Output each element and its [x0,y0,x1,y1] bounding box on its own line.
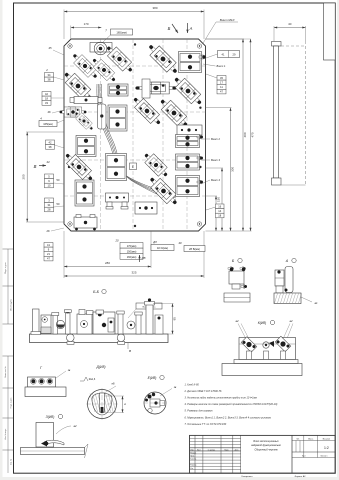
svg-text:200: 200 [21,174,25,179]
detail E circle [144,392,166,414]
svg-text:Масса: Масса [308,438,313,440]
3I8 clamp lever [44,440,64,445]
left margin strip cells [3,248,14,250]
K clamp left [241,337,257,353]
svg-text:Лист: Лист [197,449,201,451]
svg-text:300: 300 [231,167,235,172]
block i [108,105,127,131]
svg-text:32 D(мм): 32 D(мм) [157,246,168,250]
K body [239,338,296,360]
svg-text:Подп.: Подп. [224,449,229,451]
view G drawing [28,377,56,387]
svg-text:Разраб.: Разраб. [190,452,197,454]
cable bundle curves [97,84,176,194]
tall slotted part [98,104,107,129]
left dimension 200 [26,131,64,133]
section right end part [146,304,153,335]
vint2 unit [176,135,200,148]
bottom edge bolts [75,228,78,231]
K wide base [222,364,302,376]
bar ab [135,202,157,214]
clamp unit m diagonal [171,74,206,109]
svg-text:470: 470 [251,132,255,137]
detail D centerlines [86,403,118,405]
side view hidden line [305,46,307,185]
top dimension 380 [63,10,65,40]
svg-text:Масштаб: Масштаб [323,438,330,440]
svg-text:3. На места гайки надеть уплот: 3. На места гайки надеть уплотнения труб… [185,397,258,400]
svg-text:170: 170 [84,22,89,26]
E view flag [130,163,137,170]
svg-text:а2: а2 [289,319,293,323]
svg-text:Пров.: Пров. [190,455,195,457]
svg-text:1. Клей К-80: 1. Клей К-80 [185,384,200,387]
clamp unit d2 diagonal [89,55,118,84]
bottom extension lines [63,231,65,278]
block g [108,84,128,96]
svg-text:400: 400 [243,132,247,137]
main base plate outline [64,39,206,231]
svg-text:4. Размеры винтов по схеме раз: 4. Размеры винтов по схеме размерной при… [185,403,278,406]
right callout stack4 [217,76,226,81]
section right dim [168,333,174,335]
svg-text:85: 85 [173,317,177,321]
detail D dim n8 [104,386,116,393]
right dimension 150 [206,167,224,169]
svg-text:20: 20 [115,239,119,243]
clamp unit n diagonal [130,94,164,128]
section left upright [33,309,40,334]
svg-text:Утв.: Утв. [190,468,194,470]
K center pin [263,342,269,348]
svg-text:а1: а1 [314,301,318,305]
svg-text:28 Б(мм): 28 Б(мм) [189,247,200,251]
svg-text:165(мм): 165(мм) [43,122,53,126]
svg-text:45: 45 [49,46,52,50]
svg-text:Листов 1: Листов 1 [321,455,328,457]
section parts [41,315,51,334]
right dimension 470 [206,38,252,40]
svg-text:Блок экспозиционных: Блок экспозиционных [253,440,279,443]
clamp unit d4 diagonal [61,69,96,104]
detail E content [148,395,152,399]
detail D dim b [104,395,124,397]
G leader [56,371,66,378]
svg-text:б: б [123,403,127,405]
svg-text:Инв. № дубл.: Инв. № дубл. [10,299,13,311]
title block right section [292,440,335,442]
svg-text:40: 40 [288,22,292,26]
svg-text:Винт 2: Винт 2 [211,137,220,141]
I8 view arrow [139,255,141,262]
svg-text:Т.контр.: Т.контр. [190,459,197,461]
section post 2 [66,313,71,334]
section post 3 [118,313,123,334]
3I8 leader a2 [56,426,71,434]
stack s [75,180,94,206]
section mid cluster [77,314,92,334]
svg-text:Взам. инв. №: Взам. инв. № [4,366,7,377]
bottom dimension 280 [64,266,151,268]
clamp unit j diagonal [145,41,181,77]
small diagonal clamp e2 [73,110,96,133]
bar v [74,217,97,228]
svg-text:Спр. №: Спр. № [10,459,13,465]
detail D circle [88,390,117,419]
left stack b [42,92,51,97]
svg-text:Б-Б: Б-Б [93,290,100,294]
svg-text:5. Размеры для справок: 5. Размеры для справок [185,410,214,413]
svg-text:280: 280 [105,261,110,265]
svg-text:а2: а2 [235,319,239,323]
bottom left stack [44,243,53,248]
svg-text:44: 44 [47,160,50,164]
svg-text:Винт М10: Винт М10 [220,18,235,22]
top right corner table [324,3,336,60]
bench u with feet [106,193,129,202]
svg-text:Н.контр.: Н.контр. [190,465,197,467]
svg-text:Винт 3: Винт 3 [211,158,220,162]
section right cluster [93,312,115,334]
detail D slot [100,393,105,412]
svg-text:Винт 4: Винт 4 [211,178,220,182]
svg-text:Д(И8): Д(И8) [96,365,106,369]
svg-text:7. Остальные ТТ: по ОСТ4.070.0: 7. Остальные ТТ: по ОСТ4.070.030 [185,423,227,426]
svg-text:160(мм): 160(мм) [127,255,137,259]
vint4 unit [176,176,200,197]
K base strip [234,360,298,364]
svg-text:26: 26 [46,229,50,233]
clamp unit d3 diagonal [103,43,136,76]
title block name cell [291,435,293,473]
clamp unit left edge [60,107,87,117]
3I8 base [21,448,85,455]
svg-text:В: В [34,164,37,169]
left stack c [46,140,55,145]
side view dimension 40 [273,26,275,41]
section foot 1 [67,334,75,342]
svg-text:170(мм): 170(мм) [127,244,137,248]
bottom dimension 325 [64,275,204,277]
rotary unit with pulley top center [90,43,112,53]
plate corner holes [68,44,72,48]
unit p [177,125,202,135]
detail A leader a1 [301,297,312,302]
section flag V [127,343,129,349]
clamp unit d1 diagonal [70,51,101,82]
right callout vint box [218,51,240,58]
right dimension 300 [206,107,232,109]
left stack e [45,198,54,203]
title block [190,435,336,473]
svg-text:Е(И8): Е(И8) [148,376,157,380]
section roller 1 [56,320,64,328]
svg-text:Ra1,6: Ra1,6 [89,378,96,381]
section post 4 [136,314,141,334]
svg-text:А: А [189,26,193,31]
svg-text:Формат А2: Формат А2 [294,475,306,478]
svg-text:Д8: Д8 [152,240,157,244]
vint3 unit [176,154,200,170]
clamp unit r diagonal [62,150,96,184]
svg-text:Подп. и дата: Подп. и дата [11,398,13,409]
svg-text:325: 325 [131,270,136,274]
vint1 unit right top [179,52,202,73]
right dimension 400 [206,38,245,40]
svg-text:Лит.: Лит. [296,438,300,440]
E leader [160,389,172,397]
left stack d [45,174,54,179]
detail A drawing [285,267,293,293]
svg-text:Лист: Лист [302,455,306,457]
right dimension short [206,195,218,197]
plate center lines [100,39,102,231]
block t [106,154,127,181]
bar with wings [74,97,98,104]
side view plate [272,42,282,47]
svg-text:49: 49 [179,241,182,245]
section base bar [30,334,169,343]
svg-text:К(И8): К(И8) [258,321,267,325]
svg-text:6. Маркировать: Винт1 1, Винт2: 6. Маркировать: Винт1 1, Винт2 2, Винт3 … [185,416,272,419]
svg-text:Сборочный чертеж: Сборочный чертеж [254,449,277,452]
svg-text:Дата: Дата [235,449,239,451]
stack q [76,136,96,157]
svg-text:В: В [129,349,131,353]
K clamp right [275,336,291,352]
section arrow A top [187,23,189,33]
clamp unit x diagonal [146,174,181,209]
svg-text:165(мм): 165(мм) [116,31,126,35]
vysota label [136,303,162,309]
svg-text:380: 380 [152,6,157,10]
svg-text:Инв. № подл.: Инв. № подл. [4,428,7,440]
top dimension 170 [70,26,72,40]
svg-text:1:2: 1:2 [324,446,329,450]
svg-text:надувной функционально: надувной функционально [251,444,281,447]
unit L mid [135,82,176,94]
svg-text:Подп. и дата: Подп. и дата [5,261,7,273]
svg-text:Винт 1: Винт 1 [217,64,226,68]
section foot 2 [117,334,125,342]
Ra flag [80,377,88,381]
svg-text:46: 46 [48,110,51,114]
svg-text:2. Детали ОБШ.7.017.17000-76: 2. Детали ОБШ.7.017.17000-76 [184,390,223,393]
svg-text:Б: Б [168,26,171,31]
plate edge holes [199,107,201,109]
svg-text:№ докум.: № докум. [208,448,216,451]
svg-text:Копировал: Копировал [242,476,254,478]
svg-text:З(И8): З(И8) [46,415,55,419]
view 3I8 block [36,423,54,448]
svg-text:а2: а2 [73,424,77,428]
right bottom stack3 [216,204,225,209]
clamp unit o diagonal [157,96,192,131]
clamp unit w diagonal [141,150,171,180]
svg-text:150(мм): 150(мм) [127,250,137,254]
svg-text:А: А [285,259,289,263]
section roller 2 [127,321,135,329]
svg-text:150: 150 [217,197,221,202]
section post 1 [53,314,58,334]
detail B drawing [229,271,244,284]
svg-text:И8: И8 [142,256,146,260]
